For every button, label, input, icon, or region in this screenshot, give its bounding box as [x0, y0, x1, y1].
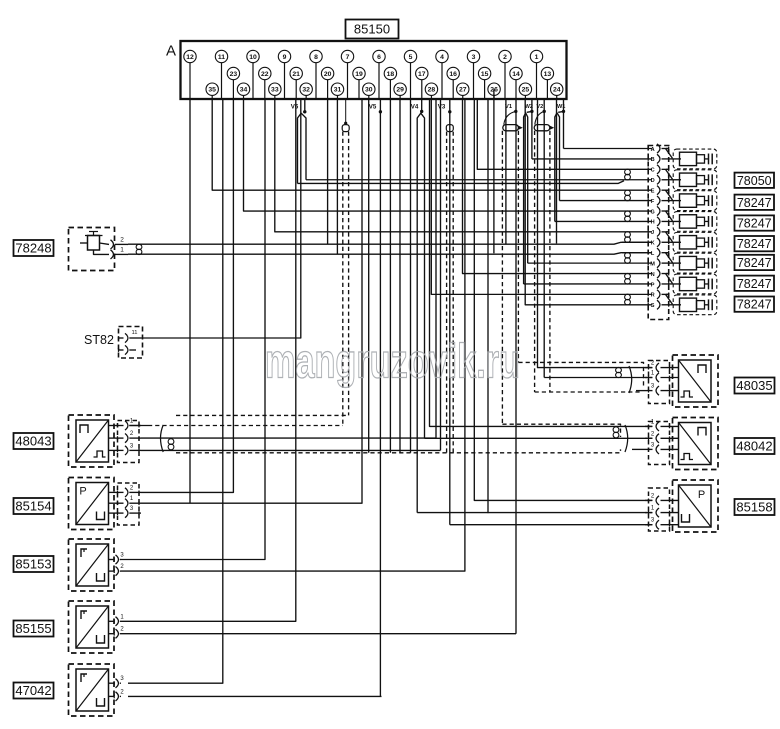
svg-text:1: 1 — [651, 371, 655, 377]
svg-text:J: J — [651, 230, 654, 236]
svg-text:1: 1 — [651, 419, 655, 425]
connector pin 3 — [467, 50, 479, 62]
wire drop to 48043-3 — [440, 100, 442, 450]
wire drop pin28 to pin R — [431, 100, 622, 294]
connector pin 18 — [384, 67, 396, 79]
svg-text:78247: 78247 — [737, 298, 772, 312]
wire drop pin24 — [556, 100, 558, 243]
connector pin 24 — [551, 83, 563, 95]
svg-text:3: 3 — [130, 506, 134, 512]
svg-text:2: 2 — [651, 361, 655, 367]
pin box 48035 — [649, 361, 670, 404]
pin 3 of 48043 — [109, 449, 124, 451]
label 48042 — [735, 438, 775, 454]
label 85158 — [735, 499, 775, 515]
svg-text:85155: 85155 — [15, 621, 51, 636]
shield dashed drain V2 — [534, 131, 536, 392]
wire drop pin1 to 48035-2 — [538, 100, 653, 368]
pin 12 of ST82 — [125, 345, 128, 354]
svg-text:V6: V6 — [291, 104, 299, 111]
svg-text:V5: V5 — [369, 104, 377, 111]
shield dashed drain V1 left — [501, 131, 503, 424]
shield wire 48043 dashed — [129, 425, 148, 427]
svg-text:3: 3 — [472, 54, 476, 61]
connector pin 22 — [259, 67, 271, 79]
injector connector 8 — [673, 295, 717, 315]
svg-text:V3: V3 — [438, 104, 446, 111]
sensor 85154 body — [69, 478, 115, 530]
svg-text:2: 2 — [503, 54, 507, 61]
svg-text:31: 31 — [334, 87, 342, 94]
connector pin 32 — [300, 83, 312, 95]
label 78247 — [735, 195, 775, 210]
sensor 85153 body — [69, 539, 115, 591]
wire drop pin23 to 85154-2 — [141, 100, 233, 492]
svg-text:14: 14 — [512, 71, 520, 78]
svg-text:mangruzovik.ru: mangruzovik.ru — [265, 336, 520, 389]
label 85154 — [14, 498, 54, 514]
svg-text:2: 2 — [120, 689, 124, 695]
pin 1 of 48035 — [645, 377, 653, 379]
cable V6 twisted-pair loop — [298, 113, 307, 183]
twisted pair symbol RS — [622, 293, 652, 295]
svg-text:3: 3 — [651, 442, 655, 448]
wire 48043-2 run — [141, 437, 436, 439]
twisted pair symbol NP — [622, 273, 652, 275]
wire drop to 85154-3 — [487, 100, 489, 513]
valve 78248 body — [69, 228, 115, 271]
shield clamp 48042 — [625, 425, 628, 452]
connector pin 28 — [425, 83, 437, 95]
cable V2 pin wire with dot — [543, 110, 546, 113]
connector pin 20 — [321, 67, 333, 79]
cable W1 pin wire with dot — [562, 110, 565, 113]
svg-text:A: A — [651, 147, 655, 153]
pin box 85158 — [649, 488, 670, 531]
connector pin 6 — [373, 50, 385, 62]
wire V6 left lower run — [298, 181, 625, 184]
svg-text:P: P — [698, 489, 705, 501]
sensor 47042 body — [69, 664, 115, 716]
shield ferrule V1 with arrow — [504, 111, 516, 124]
svg-text:78247: 78247 — [737, 237, 772, 251]
connector pin 23 — [227, 67, 239, 79]
wire 48043-3 run — [141, 449, 441, 451]
svg-text:85150: 85150 — [354, 22, 390, 37]
connector ST82 box — [119, 327, 143, 359]
pin 2 of 85158 — [645, 499, 653, 501]
wire drop pin33 to pin J — [275, 100, 622, 232]
injector connector 7 — [673, 274, 717, 294]
shield clamp 48035 — [629, 366, 632, 393]
injector connector 5 — [673, 232, 717, 252]
shield rail 48035 top dashed — [518, 362, 643, 388]
wire drop to pin N — [463, 100, 623, 274]
twisted pair symbol 48042 — [613, 427, 619, 433]
wire drop pin21 to ST82 — [141, 100, 301, 338]
connector pin 16 — [447, 67, 459, 79]
pin 3 of 48035 — [645, 390, 653, 392]
twisted pair symbol 78248 — [136, 244, 142, 249]
wire drop pin12 — [189, 100, 191, 503]
svg-text:85153: 85153 — [15, 557, 51, 572]
twisted pair symbol GH — [622, 210, 652, 212]
connector pin 13 — [541, 67, 553, 79]
connector pin 19 — [353, 67, 365, 79]
svg-text:V4: V4 — [411, 104, 419, 111]
connector pin 5 — [404, 50, 416, 62]
svg-text:15: 15 — [481, 71, 489, 78]
svg-text:25: 25 — [522, 87, 530, 94]
wire drop pin25 to pin S — [525, 100, 622, 305]
connector pin 4 — [436, 50, 448, 62]
shield rail top dashed — [176, 414, 349, 416]
svg-text:3: 3 — [651, 384, 655, 390]
pin box 85154 — [118, 483, 140, 525]
svg-text:78050: 78050 — [737, 174, 772, 188]
twisted pair symbol CD — [622, 168, 652, 170]
svg-text:R: R — [651, 293, 655, 299]
svg-text:4: 4 — [440, 54, 444, 61]
pin 1 of 48042 — [645, 425, 653, 427]
connector pin 1 — [530, 50, 542, 62]
svg-text:48043: 48043 — [15, 434, 51, 449]
shield ferrule near V6 — [342, 125, 349, 132]
svg-text:1: 1 — [130, 419, 134, 425]
shield clamp 48043 — [161, 425, 164, 452]
svg-text:2: 2 — [130, 431, 134, 437]
svg-text:C: C — [651, 168, 655, 174]
wire drop pin29 — [399, 100, 401, 453]
svg-text:2: 2 — [651, 431, 655, 437]
svg-text:2: 2 — [130, 485, 134, 491]
pin 1 of 78248 — [111, 250, 114, 259]
svg-text:10: 10 — [249, 54, 257, 61]
injector connector 2 — [673, 170, 717, 190]
label 78248 — [14, 240, 54, 256]
label 78247 — [735, 276, 775, 291]
svg-text:27: 27 — [459, 87, 467, 94]
svg-text:G: G — [650, 209, 654, 215]
svg-text:78248: 78248 — [15, 241, 51, 256]
connector pin 26 — [488, 83, 500, 95]
svg-text:29: 29 — [396, 87, 404, 94]
svg-text:11: 11 — [131, 330, 137, 336]
wire W1 left to pin H — [555, 220, 622, 222]
svg-text:2: 2 — [651, 493, 655, 499]
shield rail bottom dashed — [176, 449, 621, 452]
svg-text:24: 24 — [553, 87, 561, 94]
wire drop to 48042-1 — [430, 100, 653, 426]
svg-text:ST82: ST82 — [84, 333, 114, 347]
wire W1 pin to A — [564, 148, 623, 150]
pin 2 of 85154 — [109, 491, 124, 493]
pin 1 of 85158 — [645, 512, 653, 514]
svg-text:S: S — [651, 303, 655, 309]
svg-text:85158: 85158 — [736, 500, 772, 515]
wire drop pin22 to 85153-3 — [121, 100, 265, 560]
wire drop pin18 — [389, 100, 391, 453]
connector pin 31 — [331, 83, 343, 95]
cable V1 pin wire with dot — [514, 110, 517, 113]
svg-text:3: 3 — [651, 518, 655, 524]
pin 3 of 47042 — [116, 679, 119, 688]
shield drain dashed pair from ferrule — [342, 132, 344, 426]
connector pin 11 — [215, 50, 227, 62]
pin 3 of 85158 — [645, 524, 653, 526]
connector pin 17 — [416, 67, 428, 79]
wire W2 pin to B — [532, 158, 622, 160]
label 47042 — [14, 683, 54, 699]
cable V4 twisted-pair loop — [417, 113, 424, 512]
svg-text:13: 13 — [544, 71, 552, 78]
pin 2 of 48042 — [645, 437, 653, 439]
cable W1 twisted loop — [555, 113, 560, 222]
shield dashed drain V1 right — [517, 131, 519, 363]
pin 3 of 85154 — [109, 512, 124, 514]
svg-text:7: 7 — [346, 54, 350, 61]
svg-text:33: 33 — [271, 87, 279, 94]
injector connector 1 — [673, 149, 717, 169]
twisted pair symbol LM — [622, 252, 652, 254]
svg-text:48035: 48035 — [736, 378, 772, 393]
svg-text:17: 17 — [418, 71, 426, 78]
wire drop to 48043-2 — [435, 100, 437, 438]
shield stub 48035 pin3 — [636, 390, 645, 392]
connector pin 21 — [290, 67, 302, 79]
connector block A outline — [181, 41, 567, 99]
wire 78248-2 to pin K — [128, 242, 652, 244]
svg-text:12: 12 — [186, 54, 194, 61]
cable W2 pin wire with dot — [530, 110, 533, 113]
label 85153 — [14, 556, 54, 572]
svg-text:78247: 78247 — [737, 277, 772, 291]
shield ferrule V3 — [446, 125, 453, 132]
svg-text:34: 34 — [240, 87, 248, 94]
svg-text:L: L — [651, 251, 655, 257]
svg-text:B: B — [651, 157, 655, 163]
connector pin 34 — [237, 83, 249, 95]
label 78247 — [735, 236, 775, 251]
svg-text:23: 23 — [230, 71, 238, 78]
svg-text:47042: 47042 — [15, 683, 51, 698]
svg-text:3: 3 — [120, 676, 124, 682]
svg-text:20: 20 — [324, 71, 332, 78]
injector pin box (A-S) — [648, 146, 669, 320]
shield ferrule V2 with arrow — [535, 111, 544, 124]
injector connector 4 — [673, 212, 717, 232]
pin 3 of 48042 — [645, 448, 653, 450]
wire W2 right to pin M — [528, 262, 622, 264]
svg-text:19: 19 — [355, 71, 363, 78]
pin 2 of 85153 — [116, 567, 119, 576]
cable V3 core wire with dot — [448, 110, 451, 113]
svg-text:78247: 78247 — [737, 256, 772, 270]
wire 78248-1 to pin L — [128, 253, 652, 255]
cable W2 twisted loop — [524, 113, 528, 284]
twisted pair symbol EF — [622, 189, 652, 191]
svg-text:F: F — [651, 199, 655, 205]
connector pin 33 — [269, 83, 281, 95]
svg-text:21: 21 — [292, 71, 300, 78]
pin 1 of 85154 — [109, 502, 124, 504]
label 78247 — [735, 297, 775, 312]
wire V5 with junction dot — [379, 110, 382, 113]
wire drop pin30 — [368, 100, 370, 453]
svg-text:P: P — [651, 282, 655, 288]
connector pin 25 — [519, 83, 531, 95]
svg-text:1: 1 — [535, 54, 539, 61]
svg-text:78247: 78247 — [737, 217, 772, 231]
label 85155 — [14, 621, 54, 637]
connector pin 9 — [278, 50, 290, 62]
svg-text:2: 2 — [120, 237, 124, 244]
svg-text:K: K — [651, 241, 655, 247]
wire drop pin11 to 47042-3 — [128, 100, 223, 683]
wire W1 right to pin F — [560, 200, 623, 202]
svg-text:2: 2 — [120, 564, 124, 570]
svg-text:6: 6 — [377, 54, 381, 61]
wire W2 left to pin P — [524, 283, 622, 285]
wire drop pin31 — [336, 100, 338, 254]
wire drop to 85155-1 — [121, 100, 296, 621]
svg-text:48042: 48042 — [736, 439, 772, 454]
wire 85155-2 run — [121, 633, 516, 635]
shield rail 48042 top dashed — [502, 424, 620, 437]
pin 2 of 78248 — [111, 240, 114, 249]
ECU box label 85150 — [346, 20, 399, 39]
pin 2 of 85155 — [116, 629, 119, 638]
svg-text:1: 1 — [120, 247, 124, 254]
wire drop pin3 to pin C — [477, 100, 622, 169]
injector connector 3 — [673, 191, 717, 211]
sensor 85155 body — [69, 601, 115, 653]
connector pin 35 — [206, 83, 218, 95]
wire V4 right to 48042-2 — [425, 437, 653, 439]
label 78050 — [735, 173, 775, 188]
connector pin 27 — [457, 83, 469, 95]
wire drop pin20 — [327, 100, 329, 244]
wire drop pin26 — [493, 89, 495, 253]
cable V6 junction dot — [303, 110, 306, 113]
cable V4 junction dot — [420, 110, 423, 113]
wire drop to 85158-2 — [474, 100, 652, 500]
wire V4 left to 85158-1 — [417, 512, 652, 514]
pin box 48043 — [118, 421, 140, 463]
wire drop pin34 to pin G — [244, 100, 623, 211]
wire V2 to 48035-1 — [544, 377, 652, 379]
wire drop pin35 to pin E — [212, 100, 622, 190]
svg-text:78247: 78247 — [737, 196, 772, 210]
label 48035 — [735, 378, 775, 394]
svg-text:18: 18 — [387, 71, 395, 78]
connector pin 30 — [363, 83, 375, 95]
svg-text:35: 35 — [208, 87, 216, 94]
injector connector 6 — [673, 253, 717, 273]
svg-text:1: 1 — [651, 506, 655, 512]
shield rail 48035 bottom dashed — [535, 391, 640, 393]
twisted pair symbol 48043 — [168, 439, 174, 445]
wire drop pin5 — [410, 100, 412, 453]
svg-text:N: N — [651, 272, 655, 278]
pin 1 of 85155 — [116, 617, 119, 626]
connector pin 7 — [341, 50, 353, 62]
svg-text:A: A — [166, 43, 176, 60]
wire drop pin2 — [505, 100, 507, 244]
svg-text:30: 30 — [365, 87, 373, 94]
svg-text:85154: 85154 — [15, 499, 51, 514]
twisted pair symbol AB — [622, 148, 652, 150]
connector pin 29 — [394, 83, 406, 95]
sensor 48043 body — [69, 415, 115, 467]
svg-text:P: P — [79, 486, 86, 498]
wire V3 core to 85158-3 — [450, 524, 652, 526]
sensor 85158 body — [673, 480, 719, 532]
wire drop pin19 to 85154-1 — [141, 100, 362, 503]
svg-text:28: 28 — [428, 87, 436, 94]
connector pin 10 — [247, 50, 259, 62]
sensor 48042 body — [673, 418, 719, 470]
twisted pair symbol 48035 — [616, 367, 622, 372]
pin 2 of 48035 — [645, 367, 653, 369]
svg-text:3: 3 — [130, 443, 134, 449]
label 48043 — [14, 433, 54, 449]
svg-text:H: H — [651, 220, 655, 226]
label 78247 — [735, 215, 775, 230]
connector pin 8 — [310, 50, 322, 62]
svg-text:3: 3 — [120, 553, 124, 559]
pin 2 of 48043 — [109, 437, 124, 439]
pin 11 of ST82 — [125, 333, 128, 342]
svg-text:22: 22 — [261, 71, 269, 78]
svg-text:D: D — [651, 178, 655, 184]
svg-text:11: 11 — [218, 54, 225, 61]
sensor 48035 body — [673, 355, 719, 407]
pin 3 of 85153 — [116, 555, 119, 564]
shield stub 48042 pin3 — [632, 448, 645, 450]
svg-text:8: 8 — [314, 54, 318, 61]
svg-text:32: 32 — [302, 87, 310, 94]
wire 47042-2 run — [128, 695, 382, 697]
connector pin 2 — [499, 50, 511, 62]
svg-text:M: M — [650, 261, 655, 267]
label 78247 — [735, 255, 775, 270]
svg-text:16: 16 — [449, 71, 457, 78]
svg-text:9: 9 — [283, 54, 287, 61]
svg-text:E: E — [651, 188, 655, 194]
pin 2 of 47042 — [116, 692, 119, 701]
pin 1 of 48043 — [109, 425, 124, 427]
wire V6 right to pin D — [306, 179, 622, 181]
pin box 48042 — [649, 422, 670, 465]
svg-text:1: 1 — [130, 496, 134, 502]
wire drop pin27 to 85153-2 — [121, 100, 465, 571]
svg-text:1: 1 — [120, 614, 124, 620]
shield drain dashed pair V3 — [446, 132, 448, 453]
connector pin 15 — [478, 67, 490, 79]
svg-text:2: 2 — [120, 627, 124, 633]
twisted pair symbol JK — [622, 231, 652, 233]
connector pin 14 — [510, 67, 522, 79]
svg-text:5: 5 — [409, 54, 413, 61]
connector pin 12 — [184, 50, 196, 62]
